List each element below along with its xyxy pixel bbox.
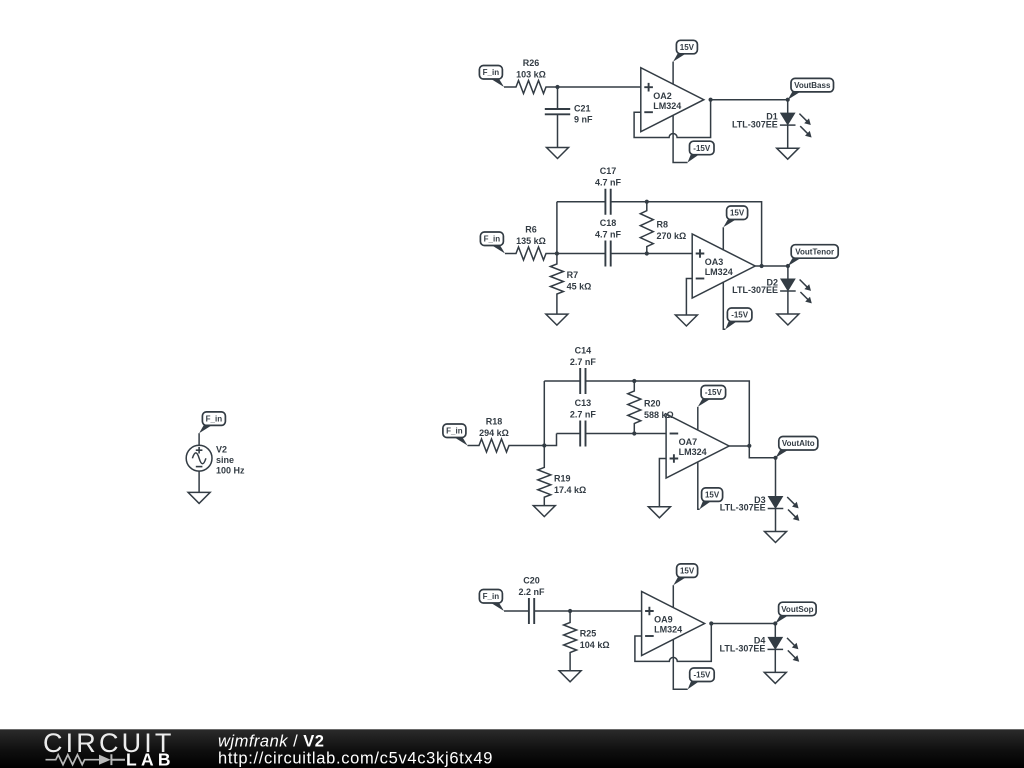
wire (output to VoutAlto): [749, 446, 775, 458]
wire (OA3 output): [755, 265, 788, 267]
wire: [198, 471, 200, 492]
node (R26/C21 junction): [555, 85, 559, 89]
node (OA9 output/feedback): [709, 621, 713, 625]
svg-text:VoutSop: VoutSop: [781, 605, 813, 614]
svg-text:F_in: F_in: [484, 235, 501, 244]
wire: [198, 433, 200, 445]
node (OA2 output/feedback): [709, 98, 713, 102]
svg-text:LM324: LM324: [654, 625, 682, 635]
ground (C21): [547, 148, 569, 159]
CircuitLab logo: diode glyph: [99, 754, 125, 765]
node (VoutSop/D4): [773, 621, 777, 625]
svg-text:2.7 nF: 2.7 nF: [570, 410, 597, 420]
node (OA3 output/feedback): [760, 264, 764, 268]
ground (D3): [765, 532, 787, 543]
svg-text:C21: C21: [574, 104, 591, 114]
ground (R25): [559, 671, 581, 682]
net flag VoutBass: [788, 78, 834, 99]
svg-text:LAB: LAB: [126, 749, 175, 768]
svg-text:OA3: OA3: [705, 257, 724, 267]
capacitor C21 9 nF: [545, 87, 593, 148]
svg-text:VoutTenor: VoutTenor: [795, 247, 834, 256]
net flag VoutSop: [775, 602, 816, 623]
svg-text:R26: R26: [523, 58, 540, 68]
wire (to C17 branch): [556, 202, 558, 254]
svg-text:V2: V2: [216, 445, 227, 455]
wire: [558, 86, 641, 88]
svg-text:C17: C17: [600, 166, 617, 176]
wire (OA9 output): [711, 623, 775, 625]
svg-text:270 kΩ: 270 kΩ: [657, 231, 687, 241]
svg-text:F_in: F_in: [483, 592, 500, 601]
ground (R19): [533, 506, 555, 517]
svg-text:R19: R19: [554, 473, 571, 483]
wire (OA9 V+ pin): [672, 585, 674, 608]
svg-text:LM324: LM324: [679, 447, 707, 457]
svg-text:wjmfrank / V2: wjmfrank / V2: [218, 732, 324, 750]
net flag F_in (bass): [479, 66, 504, 88]
wire (OA3 V- pin): [723, 282, 725, 330]
svg-text:103 kΩ: 103 kΩ: [516, 70, 546, 80]
svg-text:F_in: F_in: [446, 427, 463, 436]
node (C17/R8 junction): [645, 200, 649, 204]
svg-text:2.2 nF: 2.2 nF: [519, 587, 546, 597]
svg-text:-15V: -15V: [693, 144, 711, 153]
svg-text:-15V: -15V: [693, 671, 711, 680]
wire (OA7 non-inverting input to ground): [659, 459, 666, 507]
svg-text:15V: 15V: [705, 491, 720, 500]
svg-text:http://circuitlab.com/c5v4c3kj: http://circuitlab.com/c5v4c3kj6tx49: [218, 749, 493, 767]
resistor R19 17.4 k&#937;: [538, 446, 586, 506]
svg-text:45 kΩ: 45 kΩ: [567, 282, 592, 292]
wire (step to C13): [544, 434, 556, 446]
wire (C17 to output): [647, 202, 762, 266]
ground (R7): [546, 314, 568, 325]
svg-text:sine: sine: [216, 455, 234, 465]
footer bar: [0, 729, 1024, 768]
wire (OA3 V+ pin): [722, 227, 724, 250]
svg-text:588 kΩ: 588 kΩ: [644, 410, 674, 420]
svg-text:R7: R7: [567, 270, 579, 280]
power flag 15V (OA9): [673, 564, 697, 585]
svg-text:R25: R25: [580, 629, 597, 639]
svg-text:LM324: LM324: [653, 101, 681, 111]
capacitor C20 2.2 nF: [504, 576, 570, 625]
svg-text:294 kΩ: 294 kΩ: [479, 428, 509, 438]
op-amp OA3 LM324: [692, 234, 755, 298]
capacitor C18 4.7 nF: [557, 218, 647, 267]
node (R18/R19 junction): [542, 443, 546, 447]
svg-text:R8: R8: [657, 220, 669, 230]
resistor R20 588 k&#937;: [628, 381, 674, 434]
svg-text:LTL-307EE: LTL-307EE: [732, 285, 778, 295]
svg-text:LM324: LM324: [705, 267, 733, 277]
wire (OA9 feedback loop with hop): [635, 624, 711, 662]
wire: [647, 253, 692, 255]
wire (to C14 branch): [543, 381, 545, 446]
node (VoutBass/D1): [786, 98, 790, 102]
svg-text:OA9: OA9: [654, 615, 673, 625]
wire: [634, 433, 666, 435]
ground (OA7 input): [648, 507, 670, 518]
node (VoutTenor/D2): [786, 264, 790, 268]
svg-text:-15V: -15V: [731, 311, 749, 320]
wire (OA2 output): [711, 99, 788, 101]
node (C18/R8 junction): [645, 251, 649, 255]
svg-text:OA7: OA7: [679, 437, 698, 447]
capacitor C17 4.7 nF: [557, 166, 647, 215]
node (OA7 output/feedback): [747, 444, 751, 448]
net flag F_in (tenor): [480, 232, 505, 254]
wire (OA7 V- pin): [697, 407, 699, 431]
op-amp OA7 LM324: [666, 414, 729, 478]
resistor R7 45 k&#937;: [550, 254, 591, 315]
svg-text:17.4 kΩ: 17.4 kΩ: [554, 485, 586, 495]
power flag 15V (OA7): [700, 488, 723, 509]
wire (OA7 V+ pin): [698, 462, 700, 510]
svg-text:LTL-307EE: LTL-307EE: [720, 644, 766, 654]
wire (OA2 V- pin to -15V flag): [673, 115, 687, 162]
wire (C14 to output): [634, 381, 749, 446]
power flag -15V (OA2): [688, 141, 715, 162]
resistor R8 270 k&#937;: [640, 202, 686, 254]
net flag VoutTenor: [788, 245, 838, 266]
resistor R26 103 k&#937;: [504, 58, 558, 94]
svg-text:F_in: F_in: [483, 68, 500, 77]
wire (OA2 V+ pin): [672, 62, 674, 85]
svg-text:VoutBass: VoutBass: [794, 81, 831, 90]
LED D2 LTL-307EE: [732, 266, 812, 314]
svg-text:C14: C14: [575, 346, 592, 356]
svg-text:4.7 nF: 4.7 nF: [595, 230, 622, 240]
power flag -15V (OA3): [725, 308, 752, 329]
node (C13/R20 junction): [632, 431, 636, 435]
svg-text:F_in: F_in: [206, 415, 223, 424]
svg-text:LTL-307EE: LTL-307EE: [720, 503, 766, 513]
wire (OA9 V- pin to -15V flag): [673, 639, 687, 689]
svg-text:R18: R18: [486, 417, 503, 427]
svg-text:C20: C20: [523, 576, 540, 586]
svg-text:15V: 15V: [680, 567, 695, 576]
CircuitLab logo: resistor glyph: [46, 755, 100, 765]
ground (V2): [188, 492, 210, 503]
node (VoutAlto/D3): [773, 456, 777, 460]
power flag 15V (OA3): [723, 206, 747, 227]
node (C14/R20 junction): [632, 379, 636, 383]
net flag VoutAlto: [776, 437, 818, 458]
svg-text:2.7 nF: 2.7 nF: [570, 357, 597, 367]
LED D4 LTL-307EE: [720, 624, 800, 673]
capacitor C13 2.7 nF: [557, 398, 635, 447]
net flag F_in (soprano): [479, 590, 504, 612]
svg-text:R20: R20: [644, 398, 661, 408]
ground (OA3 input): [675, 315, 697, 326]
svg-text:C13: C13: [575, 398, 592, 408]
capacitor C14 2.7 nF: [544, 346, 634, 395]
op-amp OA2 LM324: [641, 68, 704, 132]
svg-text:VoutAlto: VoutAlto: [782, 439, 815, 448]
wire: [570, 610, 642, 612]
wire (OA3 inverting input to ground): [686, 279, 692, 316]
wire (OA7 output): [729, 445, 749, 447]
svg-text:LTL-307EE: LTL-307EE: [732, 119, 778, 129]
svg-text:R6: R6: [525, 225, 537, 235]
net flag F_in (alto): [443, 424, 468, 446]
node (R6/R7/C18 junction): [555, 251, 559, 255]
svg-text:9 nF: 9 nF: [574, 114, 593, 124]
resistor R6 135 k&#937;: [505, 225, 557, 261]
svg-text:-15V: -15V: [705, 388, 723, 397]
svg-text:15V: 15V: [730, 209, 745, 218]
ground (D4): [764, 672, 786, 683]
svg-text:100 Hz: 100 Hz: [216, 465, 245, 475]
svg-text:135 kΩ: 135 kΩ: [516, 236, 546, 246]
svg-text:104 kΩ: 104 kΩ: [580, 640, 610, 650]
node (C20/R25 junction): [568, 609, 572, 613]
power flag -15V (OA9): [688, 668, 715, 689]
resistor R25 104 k&#937;: [564, 611, 610, 671]
voltage source V2 sine 100 Hz: [186, 445, 245, 476]
svg-text:OA2: OA2: [653, 91, 672, 101]
power flag -15V (OA7): [698, 386, 726, 407]
svg-text:C18: C18: [600, 218, 617, 228]
ground (D2): [777, 314, 799, 325]
LED D3 LTL-307EE: [720, 458, 800, 532]
net flag F_in (source): [199, 412, 225, 433]
LED D1 LTL-307EE: [732, 100, 812, 148]
ground (D1): [777, 148, 799, 159]
svg-text:15V: 15V: [680, 43, 695, 52]
op-amp OA9 LM324: [642, 592, 705, 656]
power flag 15V (OA2): [673, 40, 697, 61]
svg-text:4.7 nF: 4.7 nF: [595, 178, 622, 188]
resistor R18 294 k&#937;: [468, 417, 545, 453]
wire (OA2 feedback loop with hop): [634, 100, 711, 138]
